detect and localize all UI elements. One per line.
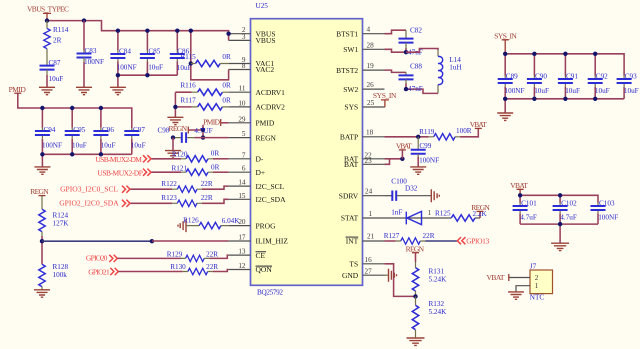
wire ILIM_HIZ navy rail xyxy=(42,240,152,242)
resistor R119 100R xyxy=(419,127,478,140)
svg-text:10uF: 10uF xyxy=(624,87,639,95)
svg-text:10uF: 10uF xyxy=(565,87,580,95)
power label VBAT (BAT) xyxy=(396,142,412,159)
svg-text:1uH: 1uH xyxy=(449,64,461,72)
wire J7 pin1 xyxy=(516,286,530,292)
node C84 top xyxy=(116,29,120,33)
svg-text:127K: 127K xyxy=(53,220,70,228)
wire PMID rail xyxy=(18,93,132,128)
ground PMID bank xyxy=(34,167,50,174)
svg-text:SW1: SW1 xyxy=(343,45,358,54)
svg-text:17: 17 xyxy=(238,234,246,242)
resistor R127 22R xyxy=(384,232,435,244)
IC right pin names xyxy=(336,29,359,280)
svg-text:100NF: 100NF xyxy=(42,142,62,150)
node VBUS pin2 junction xyxy=(226,32,230,36)
node BAT / VBAT label xyxy=(400,157,404,161)
node SW1 xyxy=(404,50,408,54)
svg-text:10uF: 10uF xyxy=(148,63,163,71)
svg-text:C84: C84 xyxy=(119,48,131,56)
IC left pin names xyxy=(256,29,289,274)
svg-text:47nF: 47nF xyxy=(408,85,423,93)
svg-text:TS: TS xyxy=(349,260,358,269)
node PMID rail C96 xyxy=(99,106,103,110)
svg-text:5.24K: 5.24K xyxy=(429,275,448,283)
ground R116/R117 xyxy=(167,117,183,124)
resistor R128 100k xyxy=(39,263,69,290)
svg-text:R119: R119 xyxy=(419,128,435,136)
wire INT to GPIO13 xyxy=(425,240,457,242)
resistor R126 6.04K xyxy=(183,217,240,229)
resistor R130 22R xyxy=(170,263,228,275)
wire BTST1 to C82 xyxy=(385,30,407,34)
svg-text:24: 24 xyxy=(365,188,373,196)
svg-text:1: 1 xyxy=(369,210,373,218)
svg-text:11: 11 xyxy=(239,85,246,93)
svg-text:C83: C83 xyxy=(85,47,97,55)
svg-text:100NF: 100NF xyxy=(117,63,137,71)
capacitor C88 xyxy=(399,63,423,93)
node bottom C95 xyxy=(70,152,74,156)
node VBAT rail dots xyxy=(518,193,522,197)
node REGN vert xyxy=(201,128,205,132)
IC U25 body BQ25792 xyxy=(251,2,363,297)
svg-text:C94: C94 xyxy=(44,126,56,134)
overline QON xyxy=(256,265,273,267)
wire PMID bottom rail xyxy=(42,154,131,167)
svg-text:22R: 22R xyxy=(206,250,218,258)
svg-text:PROG: PROG xyxy=(256,221,277,230)
svg-text:29: 29 xyxy=(238,115,246,123)
svg-text:GPIO13: GPIO13 xyxy=(466,237,489,246)
svg-text:D32: D32 xyxy=(405,185,418,193)
svg-text:28: 28 xyxy=(367,41,375,49)
ground C98 xyxy=(165,151,181,158)
svg-text:21: 21 xyxy=(367,233,375,241)
wire ILIM_HIZ to pin17 xyxy=(152,240,229,242)
svg-text:100NF: 100NF xyxy=(419,156,439,164)
svg-text:REGN: REGN xyxy=(169,124,188,133)
svg-text:1: 1 xyxy=(535,282,539,290)
svg-text:1: 1 xyxy=(428,209,432,217)
svg-text:22R: 22R xyxy=(201,194,213,202)
svg-text:10: 10 xyxy=(238,99,246,107)
ground J7 xyxy=(508,292,524,299)
svg-text:GND: GND xyxy=(342,271,359,280)
ground C99 xyxy=(410,167,426,174)
power port REGN (pin5) xyxy=(169,124,204,137)
node C84 bottom xyxy=(116,73,120,77)
svg-text:16: 16 xyxy=(365,256,373,264)
svg-text:1nF: 1nF xyxy=(391,208,402,216)
svg-text:27: 27 xyxy=(365,267,373,275)
svg-text:0R: 0R xyxy=(211,150,220,158)
svg-text:4.7uF: 4.7uF xyxy=(560,214,577,222)
svg-text:C89: C89 xyxy=(506,72,518,80)
resistor R129 22R xyxy=(167,250,229,261)
IC left pin leads xyxy=(229,34,251,270)
capacitor C103 xyxy=(591,199,619,224)
power label VBAT (R119) xyxy=(470,120,487,129)
svg-text:10uF: 10uF xyxy=(101,142,116,150)
svg-text:6: 6 xyxy=(242,165,246,173)
port GPIO2_I2C0_SDA xyxy=(59,199,172,208)
net label SYS_IN (pin25) xyxy=(373,91,397,107)
resistor R116 0R xyxy=(180,82,231,96)
svg-text:5: 5 xyxy=(242,130,246,138)
wire BTST2 to C88 xyxy=(385,70,407,72)
net label PMID (cap bank) xyxy=(9,85,27,94)
ground R132 xyxy=(407,338,425,345)
resistor R123 22R xyxy=(161,194,228,207)
svg-text:100NF: 100NF xyxy=(505,87,525,95)
svg-text:C91: C91 xyxy=(566,72,578,80)
svg-text:3: 3 xyxy=(242,33,246,41)
svg-text:GPIO3_I2C0_SCL: GPIO3_I2C0_SCL xyxy=(60,185,118,194)
svg-text:23: 23 xyxy=(365,157,373,165)
port GPIO13 xyxy=(457,237,489,246)
node VAC branch top xyxy=(189,29,193,33)
wire SYS_IN bottom rail xyxy=(505,99,624,113)
resistor R124 127K xyxy=(39,196,69,236)
svg-text:C92: C92 xyxy=(596,72,608,80)
svg-text:PMID: PMID xyxy=(256,119,275,128)
wire VBAT bottom rail xyxy=(520,224,598,243)
node C86 top xyxy=(175,29,179,33)
svg-text:18: 18 xyxy=(366,129,374,137)
node SYS bottom dots xyxy=(503,97,507,101)
svg-text:10uF: 10uF xyxy=(534,87,549,95)
svg-text:10uF: 10uF xyxy=(131,142,146,150)
wire STAT to diode xyxy=(385,217,452,219)
svg-text:R117: R117 xyxy=(180,97,196,105)
inductor L14 1uH xyxy=(438,50,462,93)
ground C87 xyxy=(39,87,55,94)
svg-text:ACDRV2: ACDRV2 xyxy=(256,103,286,112)
power label REGN (R131) xyxy=(406,245,425,254)
svg-text:R127: R127 xyxy=(384,232,400,240)
wire R124-R128 xyxy=(41,236,43,264)
svg-text:R114: R114 xyxy=(53,26,69,34)
diode D32 xyxy=(406,209,431,225)
svg-text:12: 12 xyxy=(238,262,246,270)
capacitor C83 xyxy=(77,47,104,87)
svg-text:25: 25 xyxy=(367,99,375,107)
svg-text:0R: 0R xyxy=(222,82,231,90)
resistor R125 2.2K xyxy=(435,210,487,222)
svg-text:100NF: 100NF xyxy=(598,214,618,222)
IC right pin leads xyxy=(363,34,385,276)
wire TS xyxy=(384,264,415,297)
resistor R132 5.24K xyxy=(412,296,447,338)
wire C83 branch xyxy=(83,21,85,50)
svg-text:SYS: SYS xyxy=(344,103,358,112)
svg-text:GPIO20: GPIO20 xyxy=(86,254,108,263)
svg-text:7: 7 xyxy=(242,151,246,159)
svg-text:C93: C93 xyxy=(625,72,637,80)
wire VBUS top rail xyxy=(47,21,229,41)
svg-text:VBUS: VBUS xyxy=(256,36,276,45)
svg-text:BQ25792: BQ25792 xyxy=(257,289,283,297)
svg-text:R116: R116 xyxy=(180,82,196,90)
power label VBAT (right bank) xyxy=(510,181,528,195)
capacitor C96 xyxy=(93,108,115,154)
svg-text:GPIO2_I2C0_SDA: GPIO2_I2C0_SDA xyxy=(59,199,119,208)
capacitor C97 xyxy=(124,126,145,154)
svg-text:USB-MUX2-DP: USB-MUX2-DP xyxy=(97,168,142,177)
svg-text:REGN: REGN xyxy=(30,187,49,196)
ground R128 xyxy=(34,290,50,297)
svg-text:I2C_SDA: I2C_SDA xyxy=(256,195,287,204)
wire BATP xyxy=(385,136,429,138)
svg-text:C97: C97 xyxy=(133,126,145,134)
svg-text:4.7uF: 4.7uF xyxy=(520,214,537,222)
node bottom C96 xyxy=(99,152,103,156)
node VBUS rail / R114 xyxy=(45,18,49,22)
svg-text:R131: R131 xyxy=(429,268,445,276)
capacitor C95 xyxy=(65,108,87,154)
resistor R114 xyxy=(44,21,69,66)
svg-text:10uF: 10uF xyxy=(595,87,610,95)
ground C83 xyxy=(76,87,92,94)
svg-text:ILIM_HIZ: ILIM_HIZ xyxy=(256,237,289,246)
svg-text:I2C_SCL: I2C_SCL xyxy=(256,182,285,191)
wire VBAT top rail xyxy=(520,195,598,203)
capacitor C102 xyxy=(553,195,577,224)
node PMID rail C94 xyxy=(40,106,44,110)
svg-text:REGN: REGN xyxy=(256,133,277,142)
node REGN pin5 wire xyxy=(201,135,205,139)
svg-text:14: 14 xyxy=(238,179,246,187)
node TS divider xyxy=(413,294,417,298)
svg-text:R123: R123 xyxy=(161,194,177,202)
node bottom C94 xyxy=(40,152,44,156)
wire L14 bottom to SW2 xyxy=(406,89,438,93)
svg-text:C99: C99 xyxy=(419,142,431,150)
svg-text:13: 13 xyxy=(238,248,246,256)
node SW2 xyxy=(404,87,408,91)
svg-text:VAC2: VAC2 xyxy=(256,65,275,74)
svg-text:R129: R129 xyxy=(167,250,183,258)
svg-text:VBAT: VBAT xyxy=(487,273,505,282)
svg-text:C95: C95 xyxy=(73,126,85,134)
node VBUS rail / C83 xyxy=(82,18,86,22)
svg-text:R126: R126 xyxy=(183,217,199,225)
wire C84-C86 bottom rail xyxy=(118,75,177,87)
net label SYS_IN (right bank) xyxy=(494,32,517,54)
svg-text:C98: C98 xyxy=(158,126,170,134)
svg-text:R130: R130 xyxy=(170,263,186,271)
svg-text:BATP: BATP xyxy=(340,132,358,141)
svg-text:J7: J7 xyxy=(530,262,537,270)
svg-text:22R: 22R xyxy=(423,232,435,240)
resistor R115 0R xyxy=(180,53,231,67)
node C85 bottom xyxy=(145,73,149,77)
svg-text:C102: C102 xyxy=(561,199,577,207)
svg-text:R125: R125 xyxy=(435,210,451,218)
svg-text:0R: 0R xyxy=(211,163,220,171)
svg-text:STAT: STAT xyxy=(341,214,359,223)
svg-text:ACDRV1: ACDRV1 xyxy=(256,88,286,97)
svg-text:C87: C87 xyxy=(49,59,61,67)
svg-text:19: 19 xyxy=(367,62,375,70)
node ILIM mid xyxy=(150,239,154,243)
capacitor C89 xyxy=(498,54,525,99)
node PMID rail C95 xyxy=(70,106,74,110)
svg-text:C103: C103 xyxy=(599,199,615,207)
port GPIO3_I2C0_SCL xyxy=(60,185,172,194)
wire BAT pins xyxy=(385,159,403,165)
ground PROG (left-pointing) xyxy=(178,219,186,232)
IC left pin numbers xyxy=(238,26,246,270)
svg-text:VBUS_TYPEC: VBUS_TYPEC xyxy=(27,5,69,14)
svg-text:2: 2 xyxy=(535,274,539,282)
node ILIM divider xyxy=(40,239,44,243)
svg-text:D-: D- xyxy=(256,155,264,164)
capacitor C91 xyxy=(558,54,580,99)
svg-text:4.7UF: 4.7UF xyxy=(194,127,212,135)
node BATP / C99 xyxy=(416,135,420,139)
svg-text:R121: R121 xyxy=(172,165,188,173)
node SYS rail dots xyxy=(503,52,507,56)
connector J7 xyxy=(530,262,553,301)
capacitor C87 xyxy=(40,59,64,87)
svg-text:D+: D+ xyxy=(256,168,266,177)
capacitor C99 xyxy=(411,137,439,167)
capacitor C92 xyxy=(588,54,610,99)
svg-text:2R: 2R xyxy=(53,37,62,45)
capacitor C94 xyxy=(35,108,62,154)
svg-text:U25: U25 xyxy=(256,2,269,10)
capacitor C86 xyxy=(170,31,192,75)
svg-text:PMID: PMID xyxy=(203,118,221,127)
svg-text:BAT: BAT xyxy=(344,160,359,169)
svg-text:0R: 0R xyxy=(222,53,231,61)
svg-text:C101: C101 xyxy=(521,199,537,207)
resistor R120 0R xyxy=(172,150,229,163)
ground GND pin27 (right-pointing) xyxy=(385,269,397,282)
svg-text:GPIO21: GPIO21 xyxy=(88,267,110,276)
svg-text:100NF: 100NF xyxy=(84,58,104,66)
node C85 top xyxy=(145,29,149,33)
svg-text:22R: 22R xyxy=(206,263,218,271)
svg-text:5.24K: 5.24K xyxy=(429,308,448,316)
resistor R131 5.24K xyxy=(412,253,447,297)
power port PMID (pin29) xyxy=(203,118,229,127)
wire J7 pin2 xyxy=(509,277,530,279)
svg-text:10uF: 10uF xyxy=(177,64,192,72)
net label REGN (left divider) xyxy=(30,187,49,196)
svg-text:BTST2: BTST2 xyxy=(336,66,358,75)
power label REGN (R125) xyxy=(471,203,490,212)
ground C84 rail xyxy=(110,87,126,94)
svg-text:22R: 22R xyxy=(201,180,213,188)
svg-text:SYS_IN: SYS_IN xyxy=(373,91,397,100)
svg-text:R115: R115 xyxy=(180,53,196,61)
capacitor C98 xyxy=(158,126,229,143)
capacitor C100 1nF xyxy=(385,178,432,217)
svg-text:C90: C90 xyxy=(535,72,547,80)
wire R116/R117 ground rail xyxy=(175,92,191,117)
svg-text:SW2: SW2 xyxy=(343,85,358,94)
resistor R117 0R xyxy=(180,97,231,111)
wire SW1 to L14 xyxy=(406,49,438,53)
svg-text:INT: INT xyxy=(346,237,359,246)
resistor R122 22R xyxy=(161,180,228,193)
svg-text:R132: R132 xyxy=(429,300,445,308)
svg-text:C85: C85 xyxy=(148,48,160,56)
svg-text:4: 4 xyxy=(367,26,371,34)
resistor R121 0R xyxy=(172,163,229,175)
port USB-MUX2-DP xyxy=(97,168,181,177)
capacitor C84 xyxy=(110,31,136,75)
power label VBAT (J7) xyxy=(487,273,509,282)
capacitor C101 xyxy=(513,195,537,224)
IC right pin numbers xyxy=(365,26,375,276)
svg-text:C82: C82 xyxy=(410,26,422,34)
node R117 left xyxy=(173,105,177,109)
capacitor C82 xyxy=(399,26,423,56)
capacitor C90 xyxy=(527,54,549,99)
svg-text:100k: 100k xyxy=(53,271,68,279)
svg-text:8: 8 xyxy=(242,62,246,70)
node VBAT bottom xyxy=(558,222,562,226)
overline INT xyxy=(346,236,359,238)
ground SDRV (right-pointing) xyxy=(431,189,439,202)
svg-text:15: 15 xyxy=(238,192,246,200)
svg-text:R122: R122 xyxy=(161,180,177,188)
svg-text:6.04K: 6.04K xyxy=(222,217,241,225)
wire SYS_IN top rail xyxy=(505,54,624,76)
wire VBUS_TYPEC stub xyxy=(43,13,51,20)
svg-text:SDRV: SDRV xyxy=(339,191,359,200)
wire SW1 to node xyxy=(385,49,407,52)
svg-text:USB-MUX2-DM: USB-MUX2-DM xyxy=(95,155,142,164)
port USB-MUX2-DM xyxy=(95,155,181,164)
svg-text:10uF: 10uF xyxy=(49,75,64,83)
svg-text:C88: C88 xyxy=(410,63,422,71)
svg-text:R124: R124 xyxy=(53,212,69,220)
wire C98 ground stub xyxy=(172,138,174,151)
overline CE xyxy=(256,251,267,253)
node VAC1 R115 xyxy=(189,61,193,65)
svg-text:10uF: 10uF xyxy=(72,142,87,150)
svg-text:26: 26 xyxy=(367,81,375,89)
svg-text:0R: 0R xyxy=(222,97,231,105)
svg-text:R120: R120 xyxy=(172,151,188,159)
capacitor C85 xyxy=(140,31,163,75)
svg-text:NTC: NTC xyxy=(530,294,545,302)
svg-text:R128: R128 xyxy=(53,263,69,271)
wire VAC branch xyxy=(191,31,229,80)
svg-text:BTST1: BTST1 xyxy=(336,29,358,38)
node C98 left xyxy=(171,135,175,139)
svg-text:C96: C96 xyxy=(102,126,114,134)
port GPIO21 xyxy=(88,267,183,276)
capacitor C93 xyxy=(617,72,639,99)
port GPIO20 xyxy=(86,254,181,263)
ground SYS bank xyxy=(497,113,513,120)
ground VBAT bank xyxy=(551,243,569,250)
